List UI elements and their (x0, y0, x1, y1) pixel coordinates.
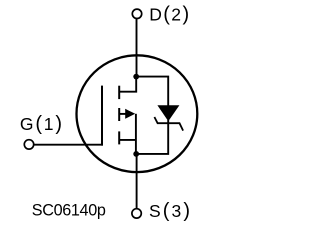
channel dash body segment (118, 108, 120, 121)
body arrow head (pointing to bus) (125, 109, 135, 119)
gate electrode line (101, 86, 103, 146)
wire: drain lead from terminal to node A (136, 19, 138, 78)
wire: diode cathode down and left to node B (136, 120, 168, 154)
svg-text:S(3): S(3) (149, 200, 192, 222)
svg-text:SC06140p: SC06140p (32, 202, 106, 220)
svg-text:D(2): D(2) (149, 4, 190, 26)
wire: source lead from node B to terminal (136, 154, 138, 209)
body diode D1 zener cathode bar (154, 117, 183, 131)
node B junction dot (133, 151, 139, 157)
body diode D1 anode triangle (157, 105, 179, 121)
channel dash source segment (118, 131, 120, 144)
svg-text:G(1): G(1) (20, 113, 64, 135)
wire: drain stub from node A down-left to channel (119, 77, 136, 92)
wire: body connection with arrow (119, 113, 126, 115)
node A junction dot (133, 74, 139, 80)
MOSFET envelope circle (76, 55, 197, 172)
wire: drain branch to diode (node A right then down) (136, 77, 168, 106)
source terminal circle S(3) (132, 209, 141, 218)
wire: source stub from channel to bus (119, 139, 136, 141)
wire: bus from arrow tip down to node B (135, 114, 137, 154)
channel dash drain segment (118, 86, 120, 99)
wire: gate lead to terminal (34, 144, 103, 146)
gate terminal circle G(1) (24, 140, 33, 149)
drain terminal circle D(2) (132, 9, 141, 18)
